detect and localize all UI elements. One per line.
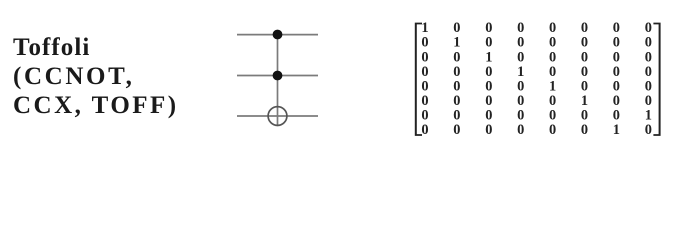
svg-text:0: 0 [485, 122, 492, 138]
svg-text:0: 0 [453, 122, 460, 138]
svg-text:1: 1 [613, 122, 620, 138]
svg-text:0: 0 [421, 122, 428, 138]
svg-text:0: 0 [581, 122, 588, 138]
svg-text:0: 0 [517, 122, 524, 138]
svg-text:0: 0 [645, 122, 652, 138]
svg-text:0: 0 [549, 122, 556, 138]
